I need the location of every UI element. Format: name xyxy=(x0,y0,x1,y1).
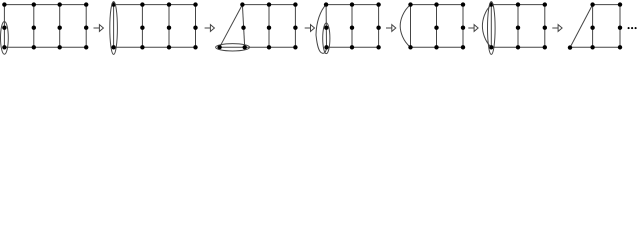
G3 contraction ellipse around v and bottom vertex 1 xyxy=(216,44,250,51)
G5 column 3 vertical edge xyxy=(462,5,464,48)
G6 column 1 vertical edge xyxy=(490,5,492,48)
G2 middle vertex 4 xyxy=(193,26,197,30)
G2 top-left vertex xyxy=(111,2,115,6)
G7 bottom vertex 2 xyxy=(618,45,622,49)
G6 top path xyxy=(491,4,545,6)
G3 top vertex 1 xyxy=(240,2,244,6)
arrow 5 shaft xyxy=(468,27,474,29)
G1 top vertex 3 xyxy=(58,2,62,6)
G5 bottom path xyxy=(411,46,464,48)
G5 curved parallel edge left xyxy=(400,5,410,48)
G5 column 1 vertical edge xyxy=(410,5,412,48)
G2 middle vertex 2 xyxy=(140,26,144,30)
arrow 3 shaft xyxy=(305,27,311,29)
graph G1 top path xyxy=(4,4,86,6)
G5 column 2 vertical edge xyxy=(436,5,438,48)
G4 middle vertex 1 xyxy=(324,26,328,30)
arrow 4 shaft xyxy=(386,27,392,29)
G1 top vertex 2 xyxy=(32,2,36,6)
arrow 3 open head xyxy=(311,25,315,32)
G6 bottom vertex 2 xyxy=(516,45,520,49)
G3 middle vertex 1 xyxy=(241,26,245,30)
G1 column 2 vertical edge xyxy=(33,5,35,48)
G6 contraction ellipse around left column xyxy=(488,2,496,55)
G4 column 2 vertical edge xyxy=(351,5,353,48)
G7 top vertex 1 xyxy=(590,2,594,6)
G5 middle vertex 3 xyxy=(461,26,465,30)
G3 merged vertex v xyxy=(217,45,221,49)
G3 bottom vertex 2 xyxy=(267,45,271,49)
G2 top vertex 3 xyxy=(167,2,171,6)
G2 bottom vertex 4 xyxy=(193,45,197,49)
G6 bottom path xyxy=(491,46,545,48)
G1 bottom vertex 1 xyxy=(2,45,6,49)
G3 bottom vertex 1 xyxy=(243,45,247,49)
ellipsis continuation dots xyxy=(628,27,637,29)
G1 middle vertex 4 xyxy=(84,26,88,30)
G4 top vertex 3 xyxy=(376,2,380,6)
G2 bottom-left vertex xyxy=(111,45,115,49)
G4 top vertex 1 xyxy=(324,2,328,6)
G3 column 3 vertical edge xyxy=(294,5,296,48)
arrow 2 open head xyxy=(210,25,214,32)
G1 column 4 vertical edge xyxy=(85,5,87,48)
graph G1 bottom path xyxy=(4,46,86,48)
G7 top path xyxy=(593,4,620,6)
G2 contraction ellipse around left column xyxy=(110,2,118,55)
G3 top path xyxy=(242,4,295,6)
G4 column 1 vertical edge xyxy=(325,5,327,48)
G1 column 1 vertical edge xyxy=(3,5,5,48)
G6 bottom-left vertex xyxy=(489,45,493,49)
G5 bottom vertex 3 xyxy=(461,45,465,49)
G2 bottom vertex 2 xyxy=(140,45,144,49)
G1 top vertex 4 xyxy=(84,2,88,6)
G3 column 1 vertical edge xyxy=(242,5,244,48)
G6 top vertex 3 xyxy=(543,2,547,6)
G7 middle vertex 2 xyxy=(618,26,622,30)
G2 column 2 vertical edge xyxy=(141,5,143,48)
G3 middle vertex 2 xyxy=(267,26,271,30)
G3 bottom vertex 3 xyxy=(293,45,297,49)
G7 middle vertex 1 xyxy=(590,26,594,30)
G5 top vertex 3 xyxy=(461,2,465,6)
G5 top-left vertex xyxy=(408,2,412,6)
G4 contraction ellipse around left mid+bottom vertices xyxy=(323,23,330,54)
G1 bottom vertex 2 xyxy=(32,45,36,49)
G2 column 4 vertical edge xyxy=(195,5,197,48)
G4 bottom vertex 3 xyxy=(376,45,380,49)
G4 bottom vertex 2 xyxy=(350,45,354,49)
G4 top path xyxy=(326,4,379,6)
G3 top vertex 2 xyxy=(267,2,271,6)
G7 merged vertex v xyxy=(568,45,572,49)
G6 middle vertex 3 xyxy=(543,26,547,30)
G1 top vertex 1 xyxy=(2,2,6,6)
G4 bottom path xyxy=(327,46,379,48)
arrow 4 open head xyxy=(392,25,396,32)
G2 column 3 vertical edge xyxy=(168,5,170,48)
G3 diagonal edge v to top-left xyxy=(220,5,243,48)
arrow 1 shaft xyxy=(94,27,100,29)
G1 middle vertex 3 xyxy=(58,26,62,30)
arrow 1 open head xyxy=(99,25,103,32)
G6 column 3 vertical edge xyxy=(544,5,546,48)
G7 column 2 vertical edge xyxy=(619,5,621,48)
G1 contraction ellipse around left mid+bottom vertices xyxy=(1,21,9,54)
G2 top vertex 2 xyxy=(140,2,144,6)
G5 top path xyxy=(411,4,464,6)
G6 curved parallel edge left xyxy=(482,5,491,48)
G4 top vertex 2 xyxy=(350,2,354,6)
G7 diagonal edge v to top vertex 1 xyxy=(570,5,593,48)
G1 bottom vertex 3 xyxy=(58,45,62,49)
G7 top vertex 2 xyxy=(618,2,622,6)
G5 bottom vertex 2 xyxy=(434,45,438,49)
graph G2 bottom path xyxy=(114,46,196,48)
G3 bottom path xyxy=(220,46,296,48)
arrow 6 shaft xyxy=(552,27,558,29)
arrow 5 open head xyxy=(474,25,478,32)
G7 bottom path xyxy=(570,46,620,48)
G7 bottom vertex 1 xyxy=(590,45,594,49)
G6 column 2 vertical edge xyxy=(517,5,519,48)
G1 middle vertex 1 xyxy=(2,26,6,30)
G2 column 1 vertical edge xyxy=(113,5,115,48)
G4 middle vertex 2 xyxy=(350,26,354,30)
G6 bottom vertex 3 xyxy=(543,45,547,49)
G2 bottom vertex 3 xyxy=(167,45,171,49)
G1 column 3 vertical edge xyxy=(59,5,61,48)
arrow 2 shaft xyxy=(205,27,211,29)
G3 column 2 vertical edge xyxy=(268,5,270,48)
G7 column 1 vertical edge xyxy=(592,5,594,48)
G4 middle vertex 3 xyxy=(376,26,380,30)
G1 middle vertex 2 xyxy=(32,26,36,30)
G5 bottom-left vertex xyxy=(408,45,412,49)
G4 column 3 vertical edge xyxy=(378,5,380,48)
G1 bottom vertex 4 xyxy=(84,45,88,49)
G3 top vertex 3 xyxy=(293,2,297,6)
G2 middle vertex 3 xyxy=(167,26,171,30)
G5 middle vertex 2 xyxy=(434,26,438,30)
graph G2 top path xyxy=(114,4,196,6)
G4 curved edge top-left to bottom-left xyxy=(316,5,327,54)
G6 top-left vertex xyxy=(489,2,493,6)
G6 top vertex 2 xyxy=(516,2,520,6)
G5 top vertex 2 xyxy=(434,2,438,6)
G4 bottom vertex 1 xyxy=(324,45,328,49)
G6 middle vertex 2 xyxy=(516,26,520,30)
G3 middle vertex 3 xyxy=(293,26,297,30)
G2 top vertex 4 xyxy=(193,2,197,6)
arrow 6 open head xyxy=(558,25,562,32)
